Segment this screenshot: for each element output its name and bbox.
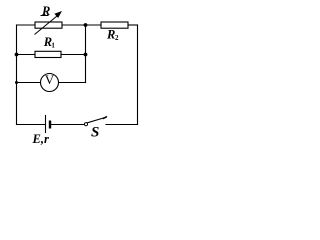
voltmeter circle (41, 74, 59, 92)
svg-text:V: V (45, 72, 55, 87)
battery long plate (45, 116, 47, 133)
junction dot left R1 (15, 53, 19, 57)
wire switch to right rail (106, 124, 138, 126)
middle rail wire (85, 25, 87, 83)
wire R1 branch right (61, 54, 86, 56)
wire R1 branch left (17, 54, 36, 56)
switch blade (88, 117, 106, 122)
wire voltmeter branch right (59, 82, 86, 84)
switch blade tip (104, 117, 107, 118)
resistor R1 box (35, 51, 61, 57)
switch contact circle (84, 123, 87, 126)
wire top-left segment (17, 24, 36, 26)
wire battery to switch (52, 124, 85, 126)
wire bottom-left segment (17, 124, 45, 126)
label R underline (41, 15, 49, 17)
rheostat arrow line (35, 16, 58, 35)
junction dot top (84, 23, 88, 27)
svg-text:2: 2 (115, 34, 119, 42)
svg-text:R: R (106, 28, 115, 42)
battery short plate (49, 121, 51, 129)
wire voltmeter branch left (17, 82, 41, 84)
junction dot left voltmeter (15, 81, 18, 84)
left rail wire (16, 25, 18, 125)
svg-text:1: 1 (51, 42, 55, 50)
junction dot right R1 (84, 53, 88, 57)
resistor R2 box (101, 22, 128, 28)
right rail wire (137, 25, 139, 125)
wire between R and R2 (62, 24, 101, 26)
svg-text:S: S (91, 125, 99, 141)
resistor R box (rheostat) (35, 22, 62, 28)
wire R2 to right rail (128, 24, 138, 26)
rheostat arrowhead (54, 11, 62, 18)
svg-text:E,r: E,r (32, 132, 49, 146)
